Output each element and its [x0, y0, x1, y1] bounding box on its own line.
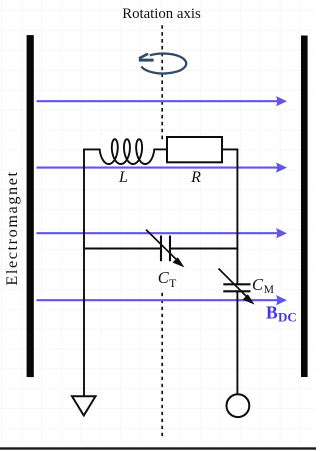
- rotation direction arrow: [141, 54, 186, 74]
- svg-text:R: R: [190, 169, 201, 186]
- svg-text:Rotation axis: Rotation axis: [122, 6, 201, 22]
- terminal circle: [227, 394, 250, 417]
- wire: left vertical: [83, 149, 85, 396]
- wire: top-left to coil: [84, 149, 101, 150]
- resistor R: [167, 137, 222, 162]
- rotation axis dashed line lower segment: [161, 293, 163, 438]
- field arrow B3: [37, 228, 288, 238]
- svg-text:B: B: [266, 303, 278, 323]
- label C_T: [158, 268, 177, 290]
- svg-text:T: T: [169, 276, 177, 290]
- electromagnet pole bar left: [27, 35, 34, 377]
- capacitor C_M variable arrow: [219, 269, 255, 305]
- field arrow B2: [37, 162, 288, 172]
- field arrow B4: [37, 295, 288, 305]
- label B_DC: [266, 303, 297, 325]
- label C_M: [252, 275, 274, 296]
- svg-text:M: M: [264, 284, 274, 296]
- bottom border line: [0, 447, 316, 449]
- field arrow B1: [37, 96, 288, 106]
- wire: coil to resistor: [154, 148, 167, 150]
- capacitor C_T variable arrow: [146, 230, 185, 268]
- wire: mid horizontal right: [170, 248, 237, 250]
- svg-text:L: L: [118, 169, 128, 186]
- svg-text:C: C: [158, 268, 170, 287]
- inductor L: [100, 139, 155, 164]
- svg-text:DC: DC: [278, 310, 297, 325]
- svg-text:Electromagnet: Electromagnet: [3, 170, 21, 285]
- electromagnet pole bar right: [301, 36, 308, 378]
- ground: [72, 396, 96, 415]
- wire: right vertical below C_M: [236, 292, 238, 395]
- wire: resistor to right corner: [222, 149, 237, 284]
- svg-text:C: C: [252, 275, 264, 294]
- wire: mid horizontal left: [84, 248, 161, 250]
- capacitor C_M plates: [223, 284, 250, 291]
- circuit wires: [84, 149, 237, 396]
- rotation arrowhead: [139, 54, 154, 60]
- capacitor C_T plates: [161, 236, 170, 262]
- rotation axis dashed line upper segment: [161, 25, 163, 140]
